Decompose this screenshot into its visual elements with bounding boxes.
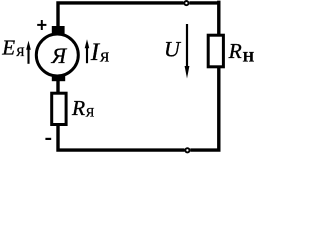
resistor RYa [52,93,66,124]
brush bottom [52,75,65,81]
motor armature circle M [36,34,78,76]
brush top [52,26,65,34]
svg-text:U: U [164,36,182,61]
svg-text:Я: Я [51,43,68,68]
wire top left segment [58,3,184,27]
svg-text:Н: Н [243,49,255,65]
terminal node top [184,1,188,5]
arrow voltage U down [185,24,190,79]
resistor Rn [208,35,223,67]
polarity minus [45,138,51,140]
terminal node bottom [185,148,189,152]
polarity plus [37,20,46,30]
wire bottom left segment [58,126,185,150]
wire motor to resistor RYa [56,79,59,93]
arrow current IYa up [85,39,90,63]
svg-text:Я: Я [16,45,24,59]
svg-text:E: E [1,35,15,59]
arrow EMF up [26,41,31,64]
wire right lower segment [190,68,219,150]
svg-text:Я: Я [100,51,109,66]
wire top right segment [189,1,218,35]
svg-text:Я: Я [86,104,95,119]
svg-text:R: R [71,96,85,120]
svg-text:R: R [228,39,242,63]
